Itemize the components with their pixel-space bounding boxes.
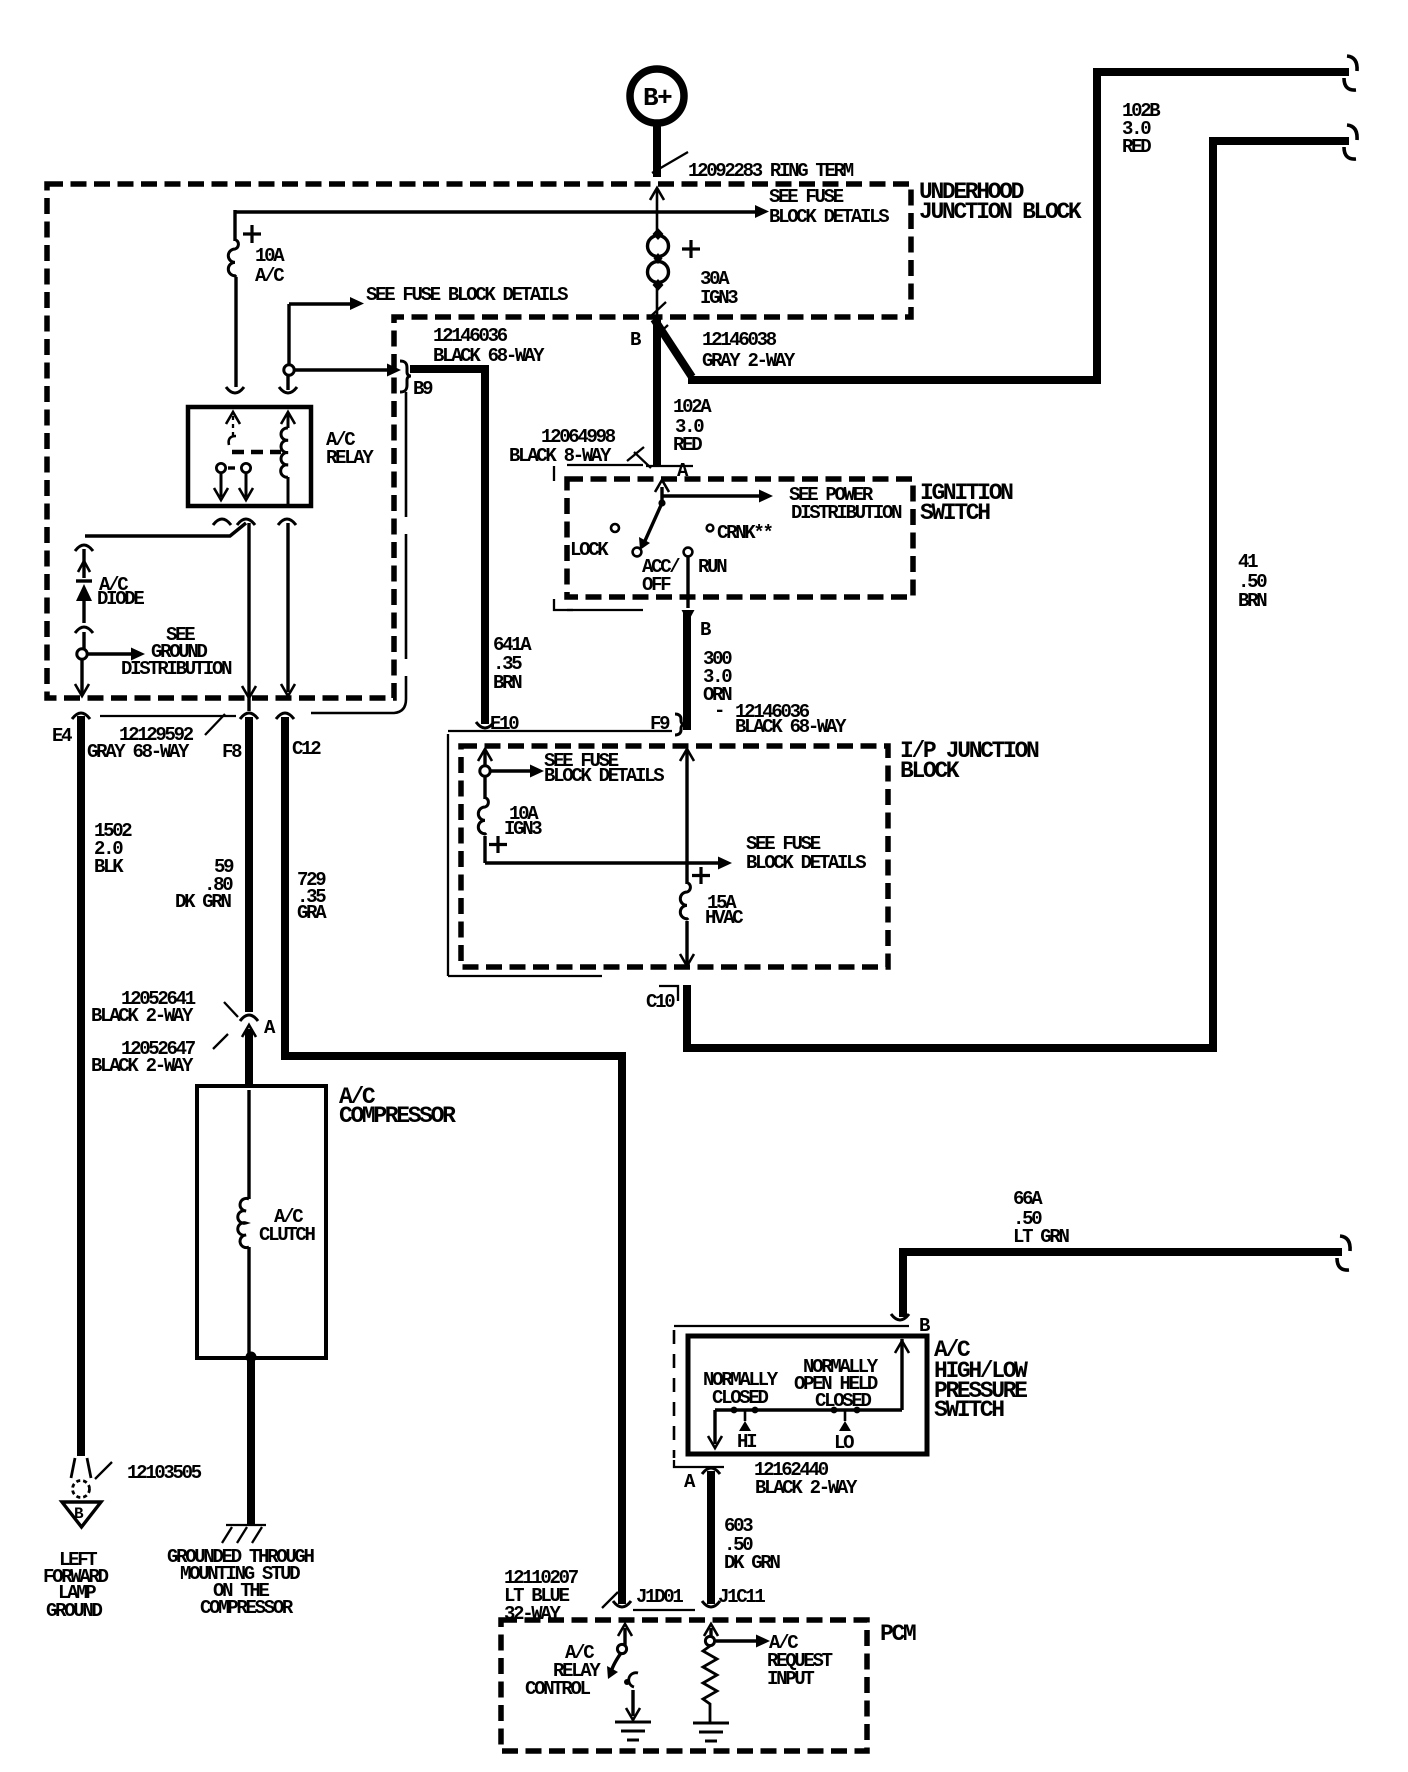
svg-text:BLK: BLK bbox=[94, 856, 124, 878]
svg-text:DISTRIBUTION: DISTRIBUTION bbox=[791, 502, 902, 524]
svg-text:DK GRN: DK GRN bbox=[175, 891, 232, 913]
svg-text:12103505: 12103505 bbox=[127, 1462, 202, 1484]
svg-text:RED: RED bbox=[673, 434, 702, 456]
svg-text:CLOSED: CLOSED bbox=[712, 1387, 769, 1409]
svg-text:B+: B+ bbox=[643, 83, 672, 113]
svg-text:HVAC: HVAC bbox=[705, 907, 743, 929]
svg-text:RELAY: RELAY bbox=[326, 447, 374, 469]
svg-text:A/C: A/C bbox=[255, 265, 284, 287]
svg-text:BLOCK: BLOCK bbox=[900, 758, 960, 784]
svg-text:LOCK: LOCK bbox=[570, 539, 609, 561]
svg-text:LO: LO bbox=[834, 1432, 854, 1454]
svg-text:GROUND: GROUND bbox=[46, 1600, 103, 1622]
svg-text:DISTRIBUTION: DISTRIBUTION bbox=[121, 658, 232, 680]
svg-text:HI: HI bbox=[737, 1431, 756, 1453]
svg-text:DIODE: DIODE bbox=[97, 588, 144, 610]
svg-text:BLACK 2-WAY: BLACK 2-WAY bbox=[91, 1055, 194, 1077]
svg-text:BRN: BRN bbox=[1238, 590, 1267, 612]
svg-text:GRAY 2-WAY: GRAY 2-WAY bbox=[702, 350, 796, 372]
svg-text:12146036: 12146036 bbox=[433, 325, 508, 347]
svg-text:102A: 102A bbox=[673, 396, 712, 418]
svg-text:IGN3: IGN3 bbox=[700, 287, 738, 309]
svg-text:SWITCH: SWITCH bbox=[934, 1397, 1004, 1423]
svg-text:12092283 RING TERM: 12092283 RING TERM bbox=[688, 160, 854, 182]
svg-text:F8: F8 bbox=[222, 741, 242, 763]
svg-text:-: - bbox=[714, 700, 723, 722]
svg-text:CLOSED: CLOSED bbox=[815, 1390, 872, 1412]
svg-text:32-WAY: 32-WAY bbox=[504, 1603, 562, 1625]
svg-text:BLACK 68-WAY: BLACK 68-WAY bbox=[735, 716, 847, 738]
svg-text:SEE FUSE: SEE FUSE bbox=[769, 186, 844, 208]
svg-text:66A: 66A bbox=[1013, 1188, 1043, 1210]
svg-text:C10: C10 bbox=[646, 991, 675, 1013]
svg-text:GRAY 68-WAY: GRAY 68-WAY bbox=[87, 741, 190, 763]
svg-text:CLUTCH: CLUTCH bbox=[259, 1224, 316, 1246]
svg-text:BLOCK DETAILS: BLOCK DETAILS bbox=[769, 206, 889, 228]
svg-text:LT GRN: LT GRN bbox=[1013, 1226, 1070, 1248]
svg-text:IGN3: IGN3 bbox=[504, 818, 542, 840]
svg-text:BRN: BRN bbox=[493, 672, 522, 694]
svg-text:F9: F9 bbox=[650, 713, 670, 735]
svg-text:41: 41 bbox=[1238, 551, 1258, 573]
svg-text:CONTROL: CONTROL bbox=[525, 1678, 591, 1700]
svg-text:E4: E4 bbox=[52, 725, 72, 747]
svg-text:BLACK 2-WAY: BLACK 2-WAY bbox=[755, 1477, 858, 1499]
svg-text:B: B bbox=[74, 1505, 84, 1523]
svg-text:BLOCK DETAILS: BLOCK DETAILS bbox=[544, 765, 664, 787]
svg-text:CRNK**: CRNK** bbox=[717, 522, 773, 544]
svg-text:BLACK 8-WAY: BLACK 8-WAY bbox=[509, 445, 612, 467]
svg-text:SWITCH: SWITCH bbox=[920, 500, 990, 526]
svg-text:COMPRESSOR: COMPRESSOR bbox=[339, 1103, 456, 1129]
svg-text:RED: RED bbox=[1122, 136, 1151, 158]
svg-text:SEE FUSE BLOCK DETAILS: SEE FUSE BLOCK DETAILS bbox=[366, 284, 568, 306]
svg-text:BLACK 68-WAY: BLACK 68-WAY bbox=[433, 345, 545, 367]
svg-text:E10: E10 bbox=[490, 713, 519, 735]
svg-text:DK GRN: DK GRN bbox=[724, 1552, 781, 1574]
svg-text:INPUT: INPUT bbox=[767, 1668, 814, 1690]
svg-text:BLOCK DETAILS: BLOCK DETAILS bbox=[746, 852, 866, 874]
svg-text:RUN: RUN bbox=[698, 556, 727, 578]
svg-text:JUNCTION BLOCK: JUNCTION BLOCK bbox=[919, 199, 1082, 225]
svg-text:J1D01: J1D01 bbox=[636, 1586, 683, 1608]
svg-text:J1C11: J1C11 bbox=[718, 1586, 765, 1608]
svg-text:12146038: 12146038 bbox=[702, 329, 777, 351]
svg-text:COMPRESSOR: COMPRESSOR bbox=[200, 1597, 294, 1619]
svg-text:OFF: OFF bbox=[642, 574, 671, 596]
svg-text:B9: B9 bbox=[413, 378, 433, 400]
svg-text:PCM: PCM bbox=[880, 1621, 916, 1647]
svg-text:C12: C12 bbox=[292, 738, 321, 760]
svg-text:GRA: GRA bbox=[297, 902, 327, 924]
svg-text:BLACK 2-WAY: BLACK 2-WAY bbox=[91, 1005, 194, 1027]
svg-text:10A: 10A bbox=[255, 245, 285, 267]
